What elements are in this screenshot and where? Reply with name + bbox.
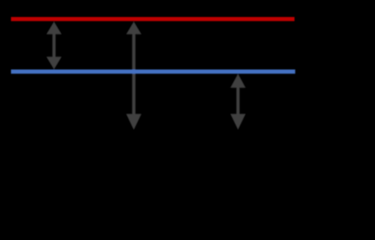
red line [11,17,295,21]
blue line [11,70,295,74]
arrow A3 (from blue line to bottom) [230,74,245,130]
arrow A2 (from red line to bottom, crosses blue) [126,22,141,130]
arrow A1 (gap between red and blue lines) [46,22,61,70]
